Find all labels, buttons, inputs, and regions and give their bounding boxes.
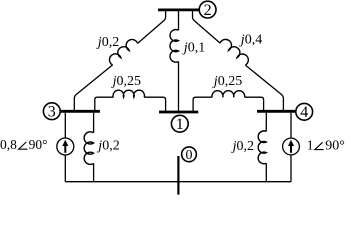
svg-text:90°: 90° bbox=[29, 137, 48, 152]
current source I4 arrow bbox=[290, 145, 292, 153]
reactance j0,25 (right horizontal coil) bbox=[212, 91, 245, 97]
wire: bus2 right stub + diagonal to node 4 bbox=[193, 11, 284, 112]
svg-text:2: 2 bbox=[204, 2, 212, 19]
current source I3 circle bbox=[57, 138, 74, 155]
svg-text:1: 1 bbox=[307, 138, 314, 153]
reactance j0,2 (left vertical coil) bbox=[84, 132, 93, 165]
current source I4 circle bbox=[283, 138, 300, 155]
wire: left j0,2 shunt branch bbox=[93, 113, 95, 182]
bus bar node 3 (left) bbox=[60, 110, 100, 113]
bus bar node 2 (top) bbox=[158, 8, 199, 11]
bottom rail wire bbox=[65, 181, 291, 183]
svg-text:3: 3 bbox=[48, 104, 56, 121]
bus bar node 1 (middle) bbox=[159, 111, 198, 114]
wire: left current source branch bbox=[64, 113, 66, 182]
reactance j0,2 (right vertical coil) bbox=[258, 131, 266, 164]
svg-text:j0,2: j0,2 bbox=[231, 139, 254, 154]
node 0 circle bbox=[182, 147, 197, 162]
svg-text:j0,2: j0,2 bbox=[96, 138, 119, 153]
wire: right j0,2 shunt branch bbox=[265, 113, 267, 182]
bus bar node 4 (right) bbox=[257, 110, 296, 113]
svg-text:1: 1 bbox=[176, 116, 184, 133]
svg-text:j0,25: j0,25 bbox=[212, 74, 242, 89]
wire: bus2 left stub + diagonal to node 3 bbox=[74, 11, 165, 112]
reactance j0,2 (bus2-bus3 diagonal coil) bbox=[109, 39, 137, 64]
reactance j0,4 (bus2-bus4 diagonal coil) bbox=[220, 39, 248, 65]
wire: left j0,25 branch (bus3 to bus1) bbox=[95, 97, 166, 111]
node 2 circle bbox=[199, 1, 216, 18]
reactance j0,25 (left horizontal coil) bbox=[113, 90, 144, 97]
svg-text:j0,25: j0,25 bbox=[111, 74, 141, 89]
node 4 circle bbox=[296, 103, 313, 120]
current source I3 arrow bbox=[64, 145, 66, 153]
wire: right j0,25 branch (bus1 to bus4) bbox=[193, 97, 264, 111]
wire: bus2 middle vertical to j0,1 and node 1 bbox=[178, 11, 180, 112]
reactance j0,1 (vertical coil, bumps left) bbox=[170, 30, 179, 63]
svg-text:0,8: 0,8 bbox=[0, 137, 17, 152]
svg-text:90°: 90° bbox=[325, 139, 345, 154]
wire: right current source branch bbox=[290, 113, 292, 182]
node 1 circle bbox=[171, 115, 188, 132]
ground bus bar node 0 bbox=[177, 156, 179, 195]
svg-text:0: 0 bbox=[186, 148, 193, 163]
svg-text:4: 4 bbox=[300, 104, 308, 121]
node 3 circle bbox=[43, 103, 60, 120]
svg-text:j0,1: j0,1 bbox=[182, 40, 205, 55]
svg-text:j0,4: j0,4 bbox=[239, 33, 262, 48]
svg-text:j0,2: j0,2 bbox=[96, 35, 119, 50]
